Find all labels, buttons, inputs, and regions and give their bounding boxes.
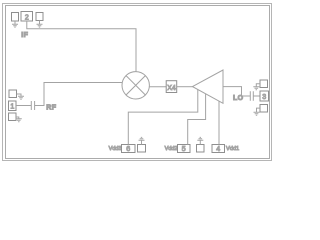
pad 1 bbox=[9, 101, 17, 111]
capacitor C2 bbox=[250, 91, 253, 100]
svg-text:2: 2 bbox=[25, 14, 29, 21]
svg-text:Vdd1: Vdd1 bbox=[226, 146, 239, 152]
pad P5a bbox=[197, 145, 205, 153]
svg-text:4: 4 bbox=[216, 146, 220, 153]
wire mixer to X4 bbox=[149, 86, 166, 88]
svg-text:6: 6 bbox=[126, 146, 130, 153]
svg-text:X4: X4 bbox=[167, 85, 176, 92]
svg-text:Vdd2: Vdd2 bbox=[165, 146, 178, 152]
multiplier X4 bbox=[166, 81, 177, 93]
pad P1b bbox=[9, 113, 17, 121]
ground bbox=[12, 21, 18, 27]
pad 6 bbox=[122, 145, 136, 153]
svg-text:LO: LO bbox=[233, 95, 244, 102]
pad 2 bbox=[21, 12, 33, 22]
svg-text:Vdd3: Vdd3 bbox=[109, 146, 122, 152]
wire bbox=[16, 117, 19, 119]
capacitor C1 bbox=[31, 101, 34, 110]
ground bbox=[18, 96, 24, 99]
mixer U1 bbox=[122, 72, 149, 99]
pad P2a bbox=[12, 13, 19, 22]
pad P1a bbox=[9, 90, 17, 98]
wire bbox=[256, 84, 260, 87]
wire RF net bbox=[35, 83, 123, 106]
wire Vdd1 net bbox=[218, 101, 220, 145]
pad 4 bbox=[212, 145, 225, 153]
ground bbox=[37, 21, 43, 28]
pad P3b bbox=[260, 105, 268, 113]
svg-text:1: 1 bbox=[10, 104, 14, 111]
pad P2b bbox=[36, 13, 43, 21]
wire IF net bbox=[27, 21, 136, 72]
ground bbox=[139, 137, 145, 144]
wire capacitor to pad 3 bbox=[253, 95, 260, 97]
svg-text:IF: IF bbox=[21, 32, 28, 39]
wire X4 to amplifier bbox=[177, 86, 193, 88]
ground bbox=[16, 119, 22, 122]
ground bbox=[254, 112, 260, 115]
wire LO net bbox=[223, 87, 250, 96]
wire Vdd3 net bbox=[128, 90, 198, 145]
svg-text:RF: RF bbox=[46, 104, 56, 111]
wire bbox=[17, 94, 22, 96]
svg-text:5: 5 bbox=[182, 146, 186, 153]
pad 5 bbox=[178, 145, 191, 153]
svg-text:3: 3 bbox=[262, 94, 266, 101]
ground bbox=[253, 87, 259, 90]
pad P3a bbox=[260, 80, 268, 88]
wire RF to capacitor bbox=[16, 105, 31, 107]
wire bbox=[257, 108, 261, 112]
amplifier A1 bbox=[193, 70, 224, 103]
pad P6a bbox=[138, 145, 146, 153]
pad 3 bbox=[260, 91, 269, 101]
ground bbox=[197, 137, 203, 144]
wire Vdd2 net bbox=[188, 94, 206, 145]
